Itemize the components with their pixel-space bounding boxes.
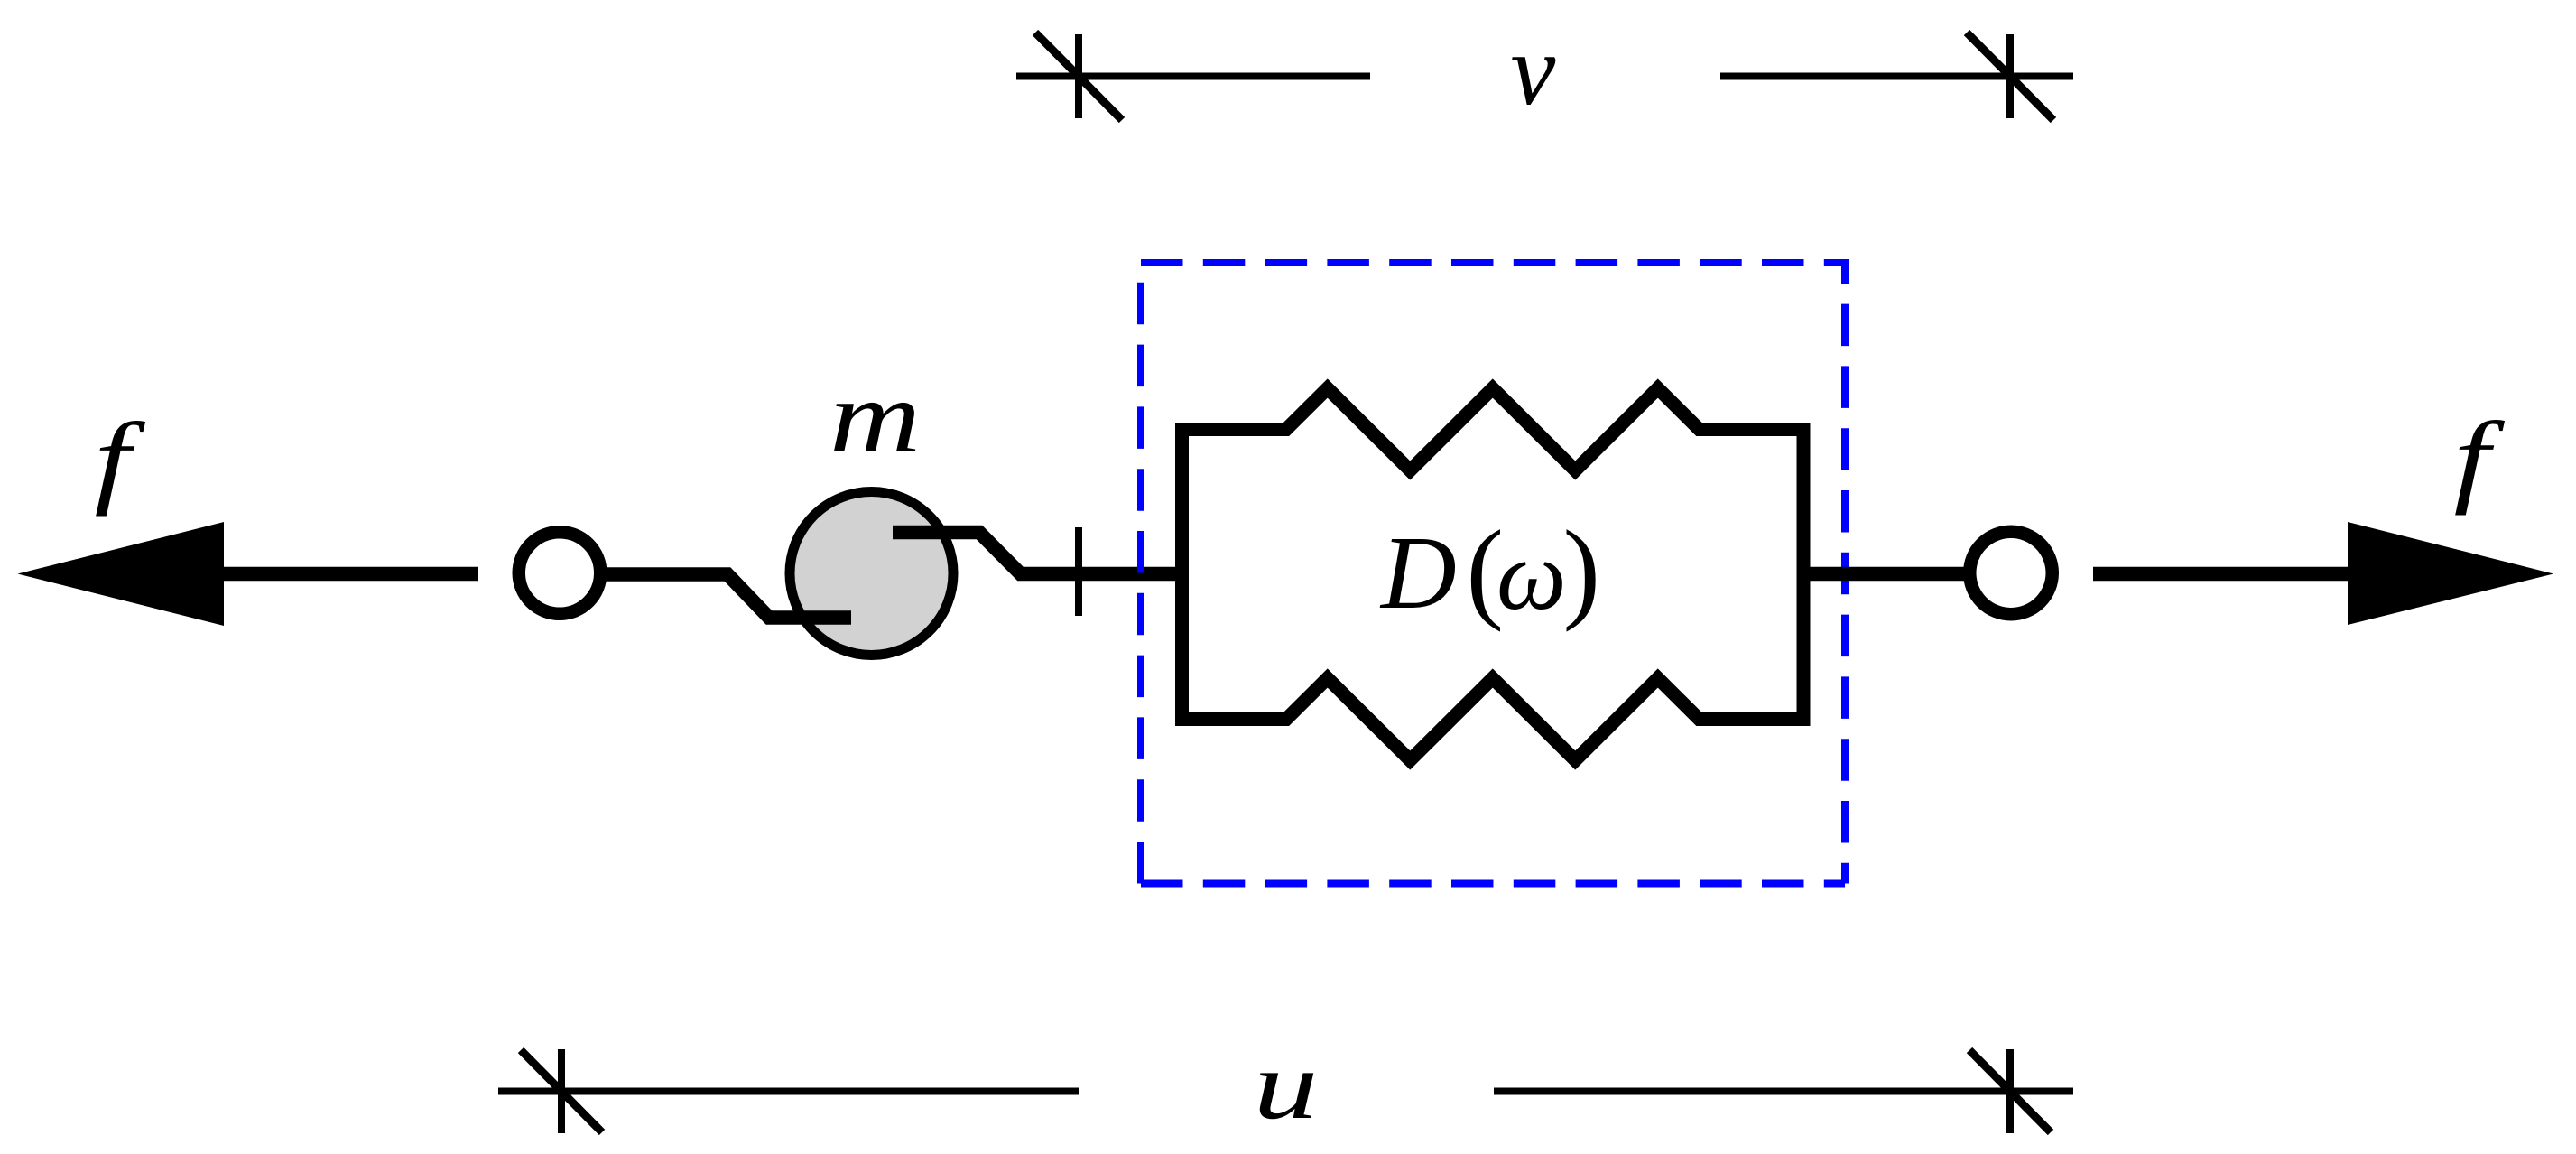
mass m circle [790, 492, 953, 656]
dimension u: left tick bar [558, 1049, 565, 1133]
svg-text:f: f [95, 402, 146, 517]
force arrow f (left), head [18, 522, 225, 626]
damper bracket right bar [1797, 430, 1811, 720]
svg-text:f: f [2454, 401, 2506, 516]
spring top (upper zigzag branch) [1175, 388, 1811, 470]
wire: right bar to right pin [1811, 567, 1965, 582]
dimension v: left tick bar [1075, 34, 1082, 118]
svg-text:ω: ω [1496, 520, 1567, 630]
node tick (v reference mark on wire) [1075, 527, 1082, 616]
svg-text:D: D [1379, 516, 1457, 631]
force arrow f (left), shaft [224, 567, 478, 582]
dimension v: left tick slash [1035, 33, 1122, 120]
node circle (left pin) [519, 532, 601, 614]
dimension v: right line segment [1720, 73, 2073, 80]
dimension u: right line segment [1494, 1088, 2073, 1095]
wire: left crank link from pin into mass [606, 574, 851, 618]
node circle (right pin) [1969, 532, 2052, 615]
spring bottom (lower zigzag branch) [1175, 678, 1811, 760]
wire: right crank link from mass to damper node [893, 533, 1176, 574]
svg-text:u: u [1254, 1032, 1319, 1140]
damper bracket left bar [1175, 430, 1189, 720]
svg-text:v: v [1511, 14, 1556, 126]
dimension v: right tick bar [2006, 34, 2014, 118]
dashed blue box around damper: left edge [1137, 263, 1144, 884]
force arrow f (right), shaft [2093, 567, 2348, 582]
label D(omega) [1379, 508, 1600, 633]
svg-text:m: m [829, 359, 921, 474]
dimension u: right tick bar [2006, 1049, 2014, 1133]
dimension u: right tick slash [1969, 1050, 2051, 1132]
dimension u: left line segment [498, 1088, 1079, 1095]
dimension u: left tick slash [521, 1050, 602, 1132]
dimension v: right tick slash [1967, 33, 2053, 120]
force arrow f (right), head [2348, 522, 2553, 625]
dimension v: left line segment [1016, 73, 1370, 80]
dashed blue box around damper: bottom edge [1141, 880, 1845, 888]
dashed blue box around damper: top and right edges [1141, 263, 1845, 884]
svg-text:): ) [1563, 508, 1601, 633]
